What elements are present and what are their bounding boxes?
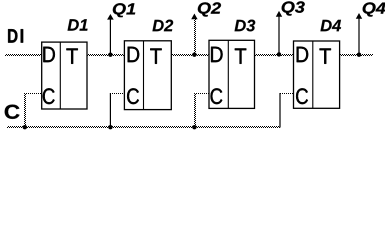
pin label C of D2	[127, 88, 139, 104]
wire clock stub into D4 C pin	[280, 93, 294, 94]
wire clock stub into D3 C pin	[195, 93, 210, 94]
pin label D of D1	[43, 47, 54, 62]
junction node Q3	[277, 52, 281, 56]
flip-flop D2 box	[124, 41, 171, 110]
junction on bus at D2 riser	[108, 125, 112, 129]
junction node Q4	[357, 53, 361, 57]
arrow Q1	[107, 14, 114, 54]
pin label T of D2	[150, 48, 161, 63]
label D3	[235, 20, 256, 32]
label D2	[152, 20, 173, 32]
junction node Q1	[108, 53, 112, 57]
flip-flop D4 box	[294, 41, 340, 108]
pin label D of D4	[297, 47, 308, 62]
pin label C of D4	[296, 88, 308, 104]
arrow Q2 dotted shaft	[191, 14, 197, 54]
wire clock stub into D1 C pin	[24, 93, 42, 94]
pin label T of D3	[235, 48, 246, 63]
wire clock stub into D2 C pin	[111, 93, 125, 94]
pin label C of D3	[211, 88, 223, 104]
junction node Q2	[192, 53, 196, 57]
wire D3 output to D4	[255, 54, 294, 56]
flip-flop D1 box	[42, 42, 87, 109]
pin label D of D2	[128, 47, 139, 62]
label Q4	[363, 2, 385, 16]
wire clock bus	[7, 126, 280, 128]
wire D2 output to D3	[171, 54, 209, 56]
node DI label	[8, 29, 23, 42]
junction on bus at D3 riser	[192, 125, 196, 129]
arrow Q3	[276, 11, 282, 54]
wire D1 output to D2	[87, 54, 124, 56]
wire clock riser to D3	[194, 93, 196, 127]
arrow Q4	[356, 13, 362, 54]
label D4	[320, 20, 341, 31]
junction on bus at D1 riser	[23, 125, 27, 129]
node C label	[5, 105, 20, 119]
pin label C of D1	[43, 88, 55, 104]
wire clock riser to D4	[279, 93, 281, 128]
wire D4 output	[340, 54, 373, 56]
label Q3	[282, 1, 305, 15]
label Q1	[113, 3, 135, 17]
wire clock riser to D1	[24, 93, 26, 128]
wire clock riser to D2	[109, 93, 111, 127]
pin label T of D1	[66, 48, 77, 63]
label D1	[68, 19, 88, 30]
flip-flop D3 box	[209, 40, 255, 108]
wire DI input to D1 D pin	[5, 54, 42, 56]
pin label D of D3	[211, 47, 222, 62]
label Q2	[198, 2, 221, 16]
pin label T of D4	[320, 48, 331, 63]
